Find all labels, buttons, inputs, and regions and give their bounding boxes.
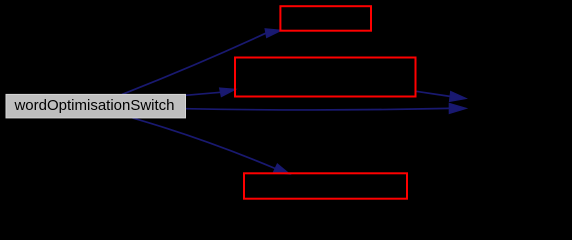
node middle (red border) (235, 58, 416, 97)
wire: edge wordOptimisationSwitch to top node (122, 29, 282, 95)
wire: edge wordOptimisationSwitch to bottom node (133, 118, 291, 174)
node wordOptimisationSwitch (6, 94, 186, 118)
svg-text:wordOptimisationSwitch: wordOptimisationSwitch (13, 97, 174, 114)
node top (red border) (280, 6, 371, 31)
node bottom (red border) (244, 173, 407, 198)
wire: edge middle node to right node (416, 91, 466, 101)
wire: long edge wordOptimisationSwitch to right node (186, 103, 467, 113)
wire: edge wordOptimisationSwitch to middle node (186, 88, 236, 97)
